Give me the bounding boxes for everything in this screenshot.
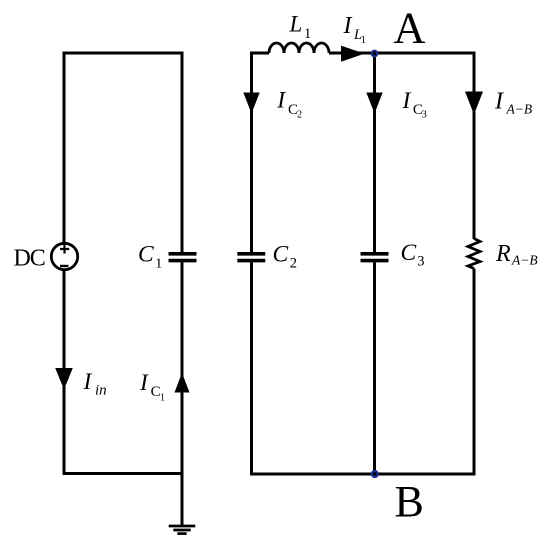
- wire left loop left lower: [63, 270, 66, 475]
- inductor L1: [269, 43, 329, 53]
- wire left loop bottom: [63, 472, 184, 475]
- svg-text:I: I: [276, 87, 286, 113]
- svg-text:A−B: A−B: [511, 253, 538, 268]
- arrow I_A-B down: [465, 92, 483, 115]
- svg-text:I: I: [494, 88, 504, 114]
- svg-text:L: L: [289, 12, 303, 37]
- capacitor C1: [169, 254, 197, 261]
- label L1: [289, 12, 312, 42]
- node A dot: [371, 50, 379, 58]
- wire C3 branch lower: [373, 262, 376, 474]
- wire left loop top: [64, 52, 182, 55]
- label C3: [401, 240, 425, 270]
- svg-text:2: 2: [290, 255, 297, 271]
- svg-text:3: 3: [422, 109, 427, 120]
- arrow I_C3 down: [366, 93, 382, 114]
- svg-text:I: I: [83, 369, 93, 395]
- arrow I_C1 up: [175, 373, 190, 393]
- svg-text:I: I: [402, 88, 412, 114]
- wire C1 branch lower: [181, 262, 184, 473]
- capacitor C3: [361, 254, 389, 261]
- svg-text:1: 1: [361, 35, 366, 46]
- wire right loop top left segment: [252, 52, 270, 55]
- svg-text:I: I: [343, 13, 353, 39]
- svg-text:A−B: A−B: [506, 102, 533, 117]
- svg-text:1: 1: [304, 26, 311, 42]
- DC source V1: [51, 243, 77, 269]
- svg-text:C: C: [401, 240, 417, 266]
- label I_L1: [343, 13, 366, 46]
- arrow I_in down: [55, 368, 73, 390]
- svg-text:I: I: [139, 370, 149, 396]
- label I_C1: [139, 370, 165, 404]
- node B dot: [371, 470, 379, 478]
- svg-text:2: 2: [297, 110, 302, 121]
- svg-text:R: R: [495, 241, 511, 267]
- label I_in: [83, 369, 107, 399]
- wire right loop bottom: [250, 473, 476, 476]
- capacitor C2: [237, 254, 265, 261]
- label C2: [273, 241, 298, 271]
- label C1: [138, 241, 162, 271]
- label I_C3: [402, 88, 427, 120]
- svg-text:B: B: [395, 477, 424, 526]
- ground: [169, 474, 196, 534]
- svg-text:C: C: [138, 241, 154, 267]
- svg-text:3: 3: [417, 254, 424, 270]
- wire C2 branch upper: [250, 52, 253, 253]
- wire after inductor to node A: [329, 52, 474, 55]
- svg-text:DC: DC: [14, 246, 45, 272]
- wire C1 branch upper: [181, 52, 184, 253]
- arrow I_C2 down: [243, 93, 259, 114]
- arrow I_L1 right: [341, 46, 365, 62]
- wire R branch upper: [473, 52, 476, 240]
- wire C3 branch upper: [373, 53, 376, 252]
- resistor R_A-B: [468, 239, 480, 269]
- wire C2 branch lower: [250, 262, 253, 475]
- label I_A-B: [494, 88, 532, 116]
- svg-text:1: 1: [160, 392, 165, 403]
- svg-text:in: in: [95, 383, 107, 399]
- svg-text:C: C: [273, 241, 289, 267]
- wire R branch lower: [473, 269, 476, 476]
- label R_A-B: [495, 241, 538, 268]
- wire left loop left upper: [63, 52, 66, 244]
- svg-text:1: 1: [155, 256, 162, 271]
- label I_C2: [276, 87, 302, 120]
- svg-text:A: A: [393, 2, 425, 52]
